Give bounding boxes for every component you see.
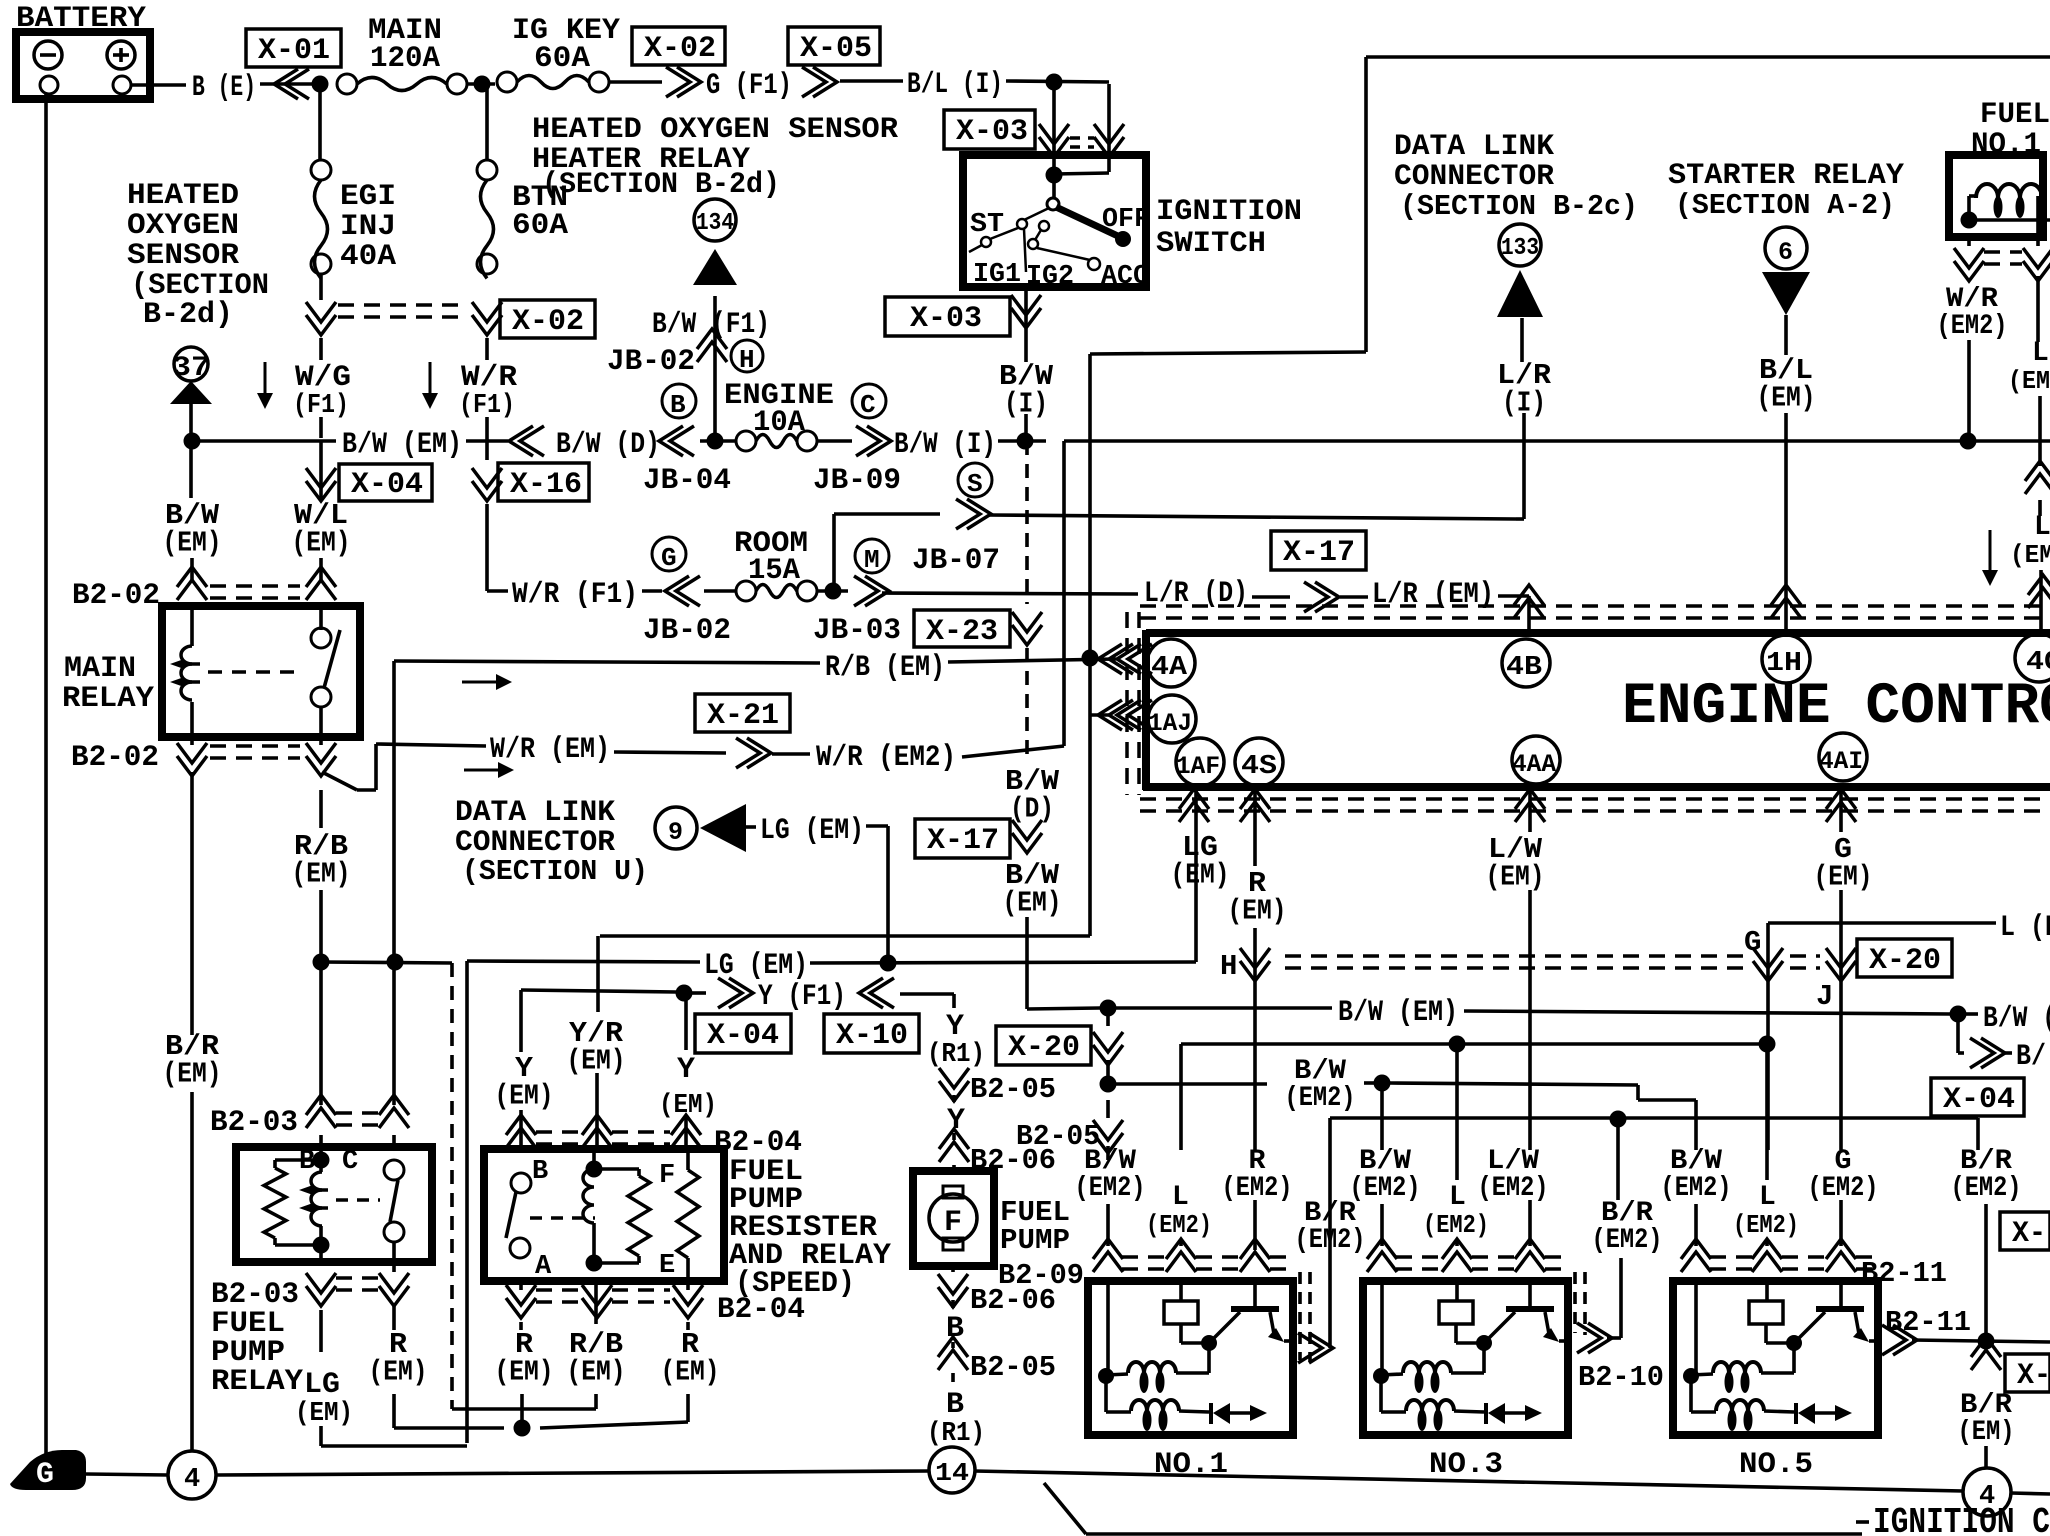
svg-text:H: H [1220, 950, 1237, 983]
node R net dot [514, 1420, 531, 1437]
label B/W (I) col [999, 360, 1054, 421]
wire fuel relay switch col [392, 962, 396, 1330]
resistor R1 [628, 1176, 650, 1256]
node fuel relay coil bottom [313, 1237, 330, 1254]
label B single 1 [946, 1312, 964, 1346]
wire LR mid2 [1340, 595, 1368, 599]
connector X-04 box right [1931, 1078, 2024, 1117]
node BW no1 branch [1100, 1076, 1117, 1093]
wire BW em mid [1116, 1006, 1332, 1010]
wire loop join [1054, 173, 1109, 174]
wire L no5 col [1765, 1044, 1769, 1180]
connector 4B feather [1514, 585, 1544, 618]
svg-text:F: F [659, 1161, 675, 1191]
wire BW em2 line [1364, 1081, 1376, 1085]
node 9 data link [655, 807, 697, 849]
node resister coil top [586, 1161, 603, 1178]
svg-text:9: 9 [668, 818, 683, 847]
wire W/G column [319, 338, 323, 438]
label B/W (F1) [652, 308, 770, 342]
fuel relay resistor [264, 1168, 286, 1238]
label B/W (EM2) no1 [1075, 1146, 1146, 1204]
connector X-10 box [824, 1014, 919, 1053]
connector B2-11 chevron G [1826, 1239, 1856, 1272]
label B/L (EM) [1757, 354, 1816, 415]
svg-text:L (E: L (E [2000, 911, 2050, 945]
svg-text:4C: 4C [2026, 648, 2050, 678]
label B/W (I) row [894, 428, 996, 462]
wire WR em2 to riser [962, 746, 1064, 757]
wire bottom line 3 [974, 1471, 1963, 1491]
label G (F1) [706, 69, 792, 103]
svg-text:LG: LG [304, 1368, 340, 1402]
wire WR em line3 [772, 752, 810, 756]
svg-text:X-04: X-04 [707, 1019, 779, 1053]
svg-text:B: B [532, 1157, 548, 1187]
arrow Y mid [677, 1053, 695, 1087]
label B/R (EM) [163, 1030, 222, 1091]
connector NO1 B2-09 dashes [1122, 1257, 1296, 1269]
dashed boundary NO3 exit [1575, 1272, 1585, 1335]
ignition coil callout line [1086, 1532, 1862, 1536]
wire battery positive to B(E) [131, 83, 186, 87]
connector X-01 box [246, 29, 341, 68]
resister pin B circle [511, 1157, 548, 1193]
ECU harness dashed bottom [1140, 799, 2050, 811]
wire top feed line [1064, 439, 2050, 443]
wire BW no3 into box [1380, 1278, 1384, 1378]
svg-text:R/B (EM): R/B (EM) [825, 651, 945, 685]
wire RB jog bottom [452, 1407, 596, 1411]
svg-text:A: A [535, 1252, 552, 1282]
label DATA LINK CONNECTOR (SECTION U) [455, 796, 648, 888]
label B/L (I) [907, 68, 1003, 102]
wire S line right [988, 515, 1516, 519]
label R/B (EM) row [825, 651, 945, 685]
connector B2-03 upper [210, 1095, 409, 1140]
label L/R (I) [1497, 359, 1552, 420]
svg-text:B/W (I): B/W (I) [894, 428, 996, 462]
wire LW col2 [1528, 890, 1532, 1150]
wire DLC corner [1516, 413, 1524, 519]
wire Y R1 top [953, 1007, 955, 1009]
svg-text:4B: 4B [1506, 653, 1542, 683]
wire BW no5 col [1694, 1100, 1698, 1150]
triangle from 6 [1762, 272, 1810, 315]
wire room to LR text [882, 593, 1138, 594]
svg-text:SENSOR: SENSOR [127, 239, 239, 273]
wire Y r1 2 [953, 1064, 955, 1102]
connector B2-04 dashes [536, 1126, 802, 1160]
wire BW no5 col2 [1694, 1204, 1698, 1246]
main relay dashed link [208, 670, 302, 674]
label B2-05 top [970, 1073, 1056, 1106]
svg-text:(EM: (EM [2010, 540, 2050, 570]
wire BW no3 col [1380, 1083, 1384, 1150]
label B2-10 [1578, 1361, 1664, 1394]
svg-text:60A: 60A [534, 42, 590, 76]
label JB-02 upper [607, 345, 695, 379]
svg-text:(EM2): (EM2) [1146, 1210, 1212, 1240]
svg-text:JB-02: JB-02 [643, 614, 731, 648]
node 134 data link [694, 199, 736, 241]
connector 4C feather [2028, 575, 2050, 608]
ECU harness dashed top [1140, 606, 2050, 618]
svg-text:X-17: X-17 [927, 824, 999, 858]
ignition switch acc arm [1037, 248, 1100, 270]
svg-text:LG (EM): LG (EM) [760, 814, 864, 848]
wire LG em corner up [465, 961, 469, 1443]
wire L em right line [1768, 921, 1996, 925]
node WR fuel relay junction [1960, 433, 1977, 450]
label W/R (EM2) col [1937, 284, 2008, 342]
label B/R (EM) [1958, 1390, 2015, 1448]
wire 134 column [713, 296, 717, 436]
label L/W (EM) [1486, 833, 1545, 894]
wire LR mid [1252, 595, 1290, 599]
connector X-20 feather J [1826, 948, 1856, 981]
label Y (R1) [927, 1010, 985, 1070]
wire L no3 col2 [1455, 1240, 1459, 1246]
wire bottom line 4 [2011, 1493, 2050, 1494]
svg-text:X-20: X-20 [1008, 1031, 1080, 1065]
node 133 data link [1499, 224, 1541, 266]
circle S [958, 463, 992, 499]
svg-text:F: F [944, 1206, 962, 1240]
connector BR no3 chevron [1577, 1323, 1612, 1353]
svg-text:HEATED OXYGEN SENSOR: HEATED OXYGEN SENSOR [532, 113, 898, 147]
svg-text:4AA: 4AA [1512, 750, 1556, 779]
circle B [662, 384, 696, 420]
node circle 14 [929, 1447, 975, 1493]
label B/W (EM2) text [1285, 1056, 1356, 1114]
ignition switch blade [1056, 207, 1131, 247]
wire EGI fuse drop [318, 84, 322, 160]
wire BR col down2 [190, 1092, 194, 1452]
connector B2-09 chevron L1 [1166, 1239, 1196, 1272]
svg-text:Y: Y [677, 1053, 695, 1087]
connector X-04 chevron [306, 468, 336, 501]
label L/R (EM) [1372, 578, 1494, 612]
label Y single [947, 1104, 965, 1138]
node room fuse junction [825, 583, 842, 600]
label B/W (EM2) no5 [1661, 1146, 1732, 1204]
connector B2-05 chevron lower [938, 1337, 968, 1370]
node circle 4 left [168, 1451, 216, 1499]
svg-text:B-2d): B-2d) [143, 298, 233, 332]
svg-text:IGNITION C: IGNITION C [1873, 1502, 2050, 1536]
label B2-11 first [1861, 1257, 1947, 1290]
wire RB horizontal [321, 962, 452, 963]
wire W/R corner to text [487, 589, 508, 593]
svg-text:(EM): (EM) [163, 526, 222, 559]
svg-text:MAIN: MAIN [64, 652, 136, 686]
main relay switch [311, 610, 340, 737]
svg-text:(EM): (EM) [1814, 860, 1873, 893]
wire YR vertical [596, 936, 600, 1012]
svg-text:L: L [2034, 512, 2050, 543]
svg-text:S: S [967, 469, 983, 499]
svg-text:(F1): (F1) [293, 391, 349, 421]
svg-text:SWITCH: SWITCH [1156, 227, 1266, 261]
svg-text:X-23: X-23 [926, 615, 998, 649]
ignition switch contact IG2 wire [1024, 229, 1026, 272]
svg-text:ENGINE CONTRO: ENGINE CONTRO [1622, 675, 2050, 740]
connector X-04 box [339, 464, 432, 502]
wire R col2 [1253, 928, 1257, 1150]
label B/W (EM) line [1338, 996, 1458, 1030]
connector B/W chevron left [509, 426, 544, 456]
svg-text:E: E [659, 1251, 675, 1281]
ignition top line [1366, 55, 2050, 59]
ignition switch contact mid [1028, 221, 1049, 249]
svg-text:(SECTION A-2): (SECTION A-2) [1675, 189, 1895, 222]
svg-text:W/R (F1): W/R (F1) [512, 578, 638, 612]
label H small [1220, 950, 1237, 983]
wire L no1 into box [1179, 1278, 1183, 1301]
wire BW no1 col3 [1106, 1100, 1110, 1160]
label (R1) lower [927, 1419, 985, 1449]
ECU pin 4AA [1512, 736, 1560, 784]
label ROOM 15A [734, 527, 808, 588]
svg-text:IG1: IG1 [973, 260, 1021, 290]
wire BW no1 col2 [1106, 1060, 1110, 1084]
connector X-02 lower chevron right [472, 302, 502, 335]
svg-text:134: 134 [696, 210, 734, 237]
connector B2-09 chevron no1 [1093, 1239, 1123, 1272]
wire L no3 into box [1455, 1278, 1459, 1301]
circle M [855, 539, 889, 575]
wire Y mid col2 [684, 1118, 688, 1150]
connector X-03 lower chevron [1011, 295, 1041, 328]
wire Y chev [692, 991, 706, 995]
label B/R (EM2) right [1951, 1146, 2022, 1204]
svg-text:(EM): (EM) [163, 1057, 222, 1090]
svg-text:M: M [864, 545, 880, 575]
wire to B/L (I) [840, 79, 903, 83]
wire Y to fuel pump corner [900, 994, 954, 1008]
svg-text:(EM2: (EM2 [2008, 366, 2050, 396]
wire S riser [834, 514, 940, 591]
svg-text:X-17: X-17 [1283, 536, 1355, 570]
label L/R (D) [1144, 577, 1248, 611]
wire X04 wg [320, 339, 322, 341]
label IGNITION SWITCH [1156, 195, 1302, 261]
circle C [852, 384, 886, 420]
connector X-02 lower chevron left [306, 302, 336, 335]
wire BW em corner [1027, 1008, 1100, 1009]
wire BR no1 col [1328, 1118, 1332, 1348]
label B/W (EM) row1 [342, 428, 462, 462]
wire R col [1253, 790, 1257, 866]
wire L col right [2036, 276, 2040, 342]
ECU pin 4A [1147, 639, 1195, 687]
label B/R (EM2) no35 [1592, 1198, 1663, 1256]
svg-text:B: B [299, 1147, 315, 1177]
label B2-05 bw1 [1016, 1120, 1100, 1153]
wire pump to 14 [951, 1446, 955, 1448]
wire LR to 4B [1498, 596, 1529, 636]
svg-text:X-: X- [2017, 1359, 2050, 1393]
wire X-03 vertical main [1052, 83, 1056, 175]
wire fuel relay switch col2 [392, 1394, 396, 1428]
connector B2-04 chevron B [506, 1115, 536, 1148]
svg-text:(SECTION U): (SECTION U) [462, 855, 648, 888]
svg-text:X-: X- [2012, 1217, 2046, 1251]
connector X-03 dashes [1070, 138, 1094, 147]
label IG KEY 60A [512, 14, 620, 76]
svg-text:(EM2): (EM2) [1423, 1210, 1489, 1240]
wire G col2 [1839, 890, 1843, 1150]
connector B2-09 chevron R [1240, 1239, 1270, 1272]
svg-text:120A: 120A [370, 42, 440, 76]
fuel pump resister box [484, 1149, 724, 1281]
wire BR no35 col2 [1607, 1258, 1621, 1338]
connector BR chevron down [1971, 1337, 2001, 1370]
wire BW no1 into box [1106, 1278, 1110, 1378]
svg-text:(EM2): (EM2) [1661, 1173, 1732, 1204]
svg-text:G (F1): G (F1) [706, 69, 792, 103]
svg-text:B2-11: B2-11 [1861, 1257, 1947, 1290]
wire B/W dashed drop 2 [1025, 648, 1029, 762]
connector X-16 chevron [472, 468, 502, 501]
ECU pin 4B [1502, 639, 1550, 687]
node B/W (EM) junction [184, 433, 201, 450]
wire LW col into no3 [1528, 1278, 1532, 1307]
ignition switch pivot [1047, 175, 1059, 210]
node B/W (I) junction [1017, 433, 1034, 450]
svg-text:B2-10: B2-10 [1578, 1361, 1664, 1394]
connector 1H feather [1771, 585, 1801, 618]
connector S chevron [956, 499, 991, 529]
svg-text:(EM2): (EM2) [1478, 1173, 1549, 1204]
wire LG to pin 1AF [1194, 790, 1198, 962]
wire X-03 vertical loop [1107, 84, 1111, 172]
connector B2 chevron L5 [1752, 1239, 1782, 1272]
wire L col right4 [2039, 570, 2043, 634]
wire 37 to B/W junction [189, 404, 193, 435]
svg-text:(R1): (R1) [927, 1040, 985, 1070]
connector B2-02 upper label [72, 579, 160, 613]
connector X-02 lower dashes [338, 305, 468, 317]
wire EGI fuse to X-02 [319, 274, 323, 300]
svg-text:14: 14 [935, 1458, 969, 1488]
svg-text:6: 6 [1778, 238, 1793, 267]
node fuel relay no1 junction [1961, 212, 1978, 229]
wire E col to corner [540, 1394, 688, 1428]
connector B2-02 lower chevrons [177, 743, 336, 776]
wire RB dashed drop [450, 963, 454, 1409]
svg-text:B/W (D): B/W (D) [556, 428, 660, 462]
wire BW col2 [191, 441, 192, 580]
svg-text:DATA LINK: DATA LINK [455, 796, 615, 830]
connector X-17 box 2 [915, 819, 1010, 858]
svg-text:(EM): (EM) [292, 526, 351, 559]
svg-text:(I): (I) [1502, 386, 1546, 419]
wire WR em2 riser [1062, 441, 1066, 746]
connector X-03 box upper [944, 110, 1035, 149]
svg-text:B (E): B (E) [192, 71, 256, 105]
wire to room chevron [642, 589, 662, 593]
svg-text:X-20: X-20 [1869, 944, 1941, 978]
resister coil [583, 1169, 594, 1223]
connector X-02 lower box [500, 300, 595, 339]
label L/W (EM2) no3 [1478, 1146, 1549, 1204]
label Y (F1) [758, 980, 846, 1014]
wire B(E) to X-01 [260, 82, 316, 86]
label R/B (EM) resister [567, 1328, 626, 1389]
svg-text:4AI: 4AI [1819, 747, 1863, 776]
svg-text:(D): (D) [1010, 792, 1054, 825]
svg-text:JB-04: JB-04 [643, 464, 731, 498]
svg-text:W/R: W/R [461, 361, 517, 395]
connector B2-02 upper chevrons [177, 567, 336, 600]
svg-text:(EM): (EM) [1757, 381, 1816, 414]
svg-text:EGI: EGI [340, 180, 396, 214]
svg-text:W/R (EM): W/R (EM) [490, 733, 610, 767]
svg-text:RELAY: RELAY [211, 1365, 303, 1399]
connector 4AA feather [1515, 789, 1545, 822]
fuel relay no1 wires [1969, 196, 2042, 237]
svg-text:OXYGEN: OXYGEN [127, 209, 239, 243]
svg-text:IGNITION: IGNITION [1156, 195, 1302, 229]
ignition switch contact IG2 arm [1017, 208, 1049, 229]
connector B2-04 chevron YR [582, 1115, 612, 1148]
label LG (EM) dlc [760, 814, 864, 848]
wire G col3 [1839, 1200, 1843, 1246]
svg-text:(EM2): (EM2) [1075, 1173, 1146, 1204]
wire LW col [1528, 790, 1532, 832]
battery [16, 32, 150, 99]
label LG (EM) line [704, 949, 808, 983]
svg-text:4A: 4A [1151, 653, 1188, 683]
wire 1AJ branch [1090, 713, 1112, 717]
node BW em2 no3 [1374, 1075, 1391, 1092]
label ACC [1101, 262, 1149, 292]
label IG2 [1026, 262, 1074, 292]
svg-text:CONNECTOR: CONNECTOR [1394, 160, 1554, 194]
svg-text:(F1): (F1) [459, 391, 515, 421]
connector X-01 chevron [274, 69, 309, 99]
wire into pump [952, 1165, 956, 1171]
svg-text:B/W (EM): B/W (EM) [342, 428, 462, 462]
wire battery negative down [44, 94, 48, 1455]
connector B2-04 chevron F [671, 1115, 701, 1148]
svg-text:ACC: ACC [1101, 262, 1149, 292]
svg-text:X-16: X-16 [510, 468, 582, 502]
label B/W (EM) col [1003, 859, 1062, 920]
connector X-03 chevron main [1039, 124, 1069, 157]
svg-text:(EM): (EM) [1228, 894, 1287, 927]
label Y/R (EM) [567, 1017, 626, 1078]
connector 4S feather [1240, 789, 1270, 822]
svg-text:G: G [661, 543, 677, 573]
wire BW no3 col2 [1380, 1204, 1384, 1246]
wire BW em right [1464, 1011, 1950, 1014]
label J small [1816, 980, 1833, 1013]
node ignition feed junction [1046, 167, 1063, 184]
connector X-02 box [632, 27, 725, 66]
fuel relay dashed link [336, 1198, 380, 1202]
svg-text:HEATED: HEATED [127, 179, 239, 213]
fuel pump box [913, 1171, 994, 1266]
svg-text:JB-09: JB-09 [813, 464, 901, 498]
svg-text:L: L [1172, 1182, 1189, 1213]
wire LG fuel relay col2 [321, 1426, 467, 1446]
svg-text:(EM): (EM) [1486, 860, 1545, 893]
wire BR to circle 4 [1984, 1446, 1988, 1467]
svg-text:(EM): (EM) [292, 857, 351, 890]
